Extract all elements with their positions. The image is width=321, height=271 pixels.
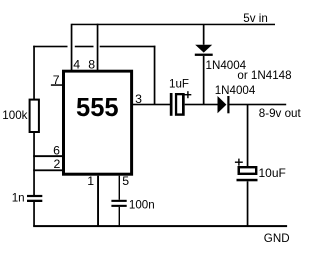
svg-text:or 1N4148: or 1N4148 xyxy=(237,69,291,82)
svg-text:1uF: 1uF xyxy=(169,77,189,90)
svg-text:GND: GND xyxy=(264,232,290,245)
svg-text:100n: 100n xyxy=(129,198,155,211)
svg-text:5: 5 xyxy=(122,174,129,188)
svg-text:7: 7 xyxy=(53,73,60,87)
svg-text:1n: 1n xyxy=(12,192,25,205)
svg-text:5v in: 5v in xyxy=(243,12,267,25)
svg-text:555: 555 xyxy=(76,94,119,122)
svg-text:1: 1 xyxy=(87,174,94,188)
svg-text:8-9v out: 8-9v out xyxy=(259,107,302,120)
svg-text:2: 2 xyxy=(54,157,61,171)
svg-text:10uF: 10uF xyxy=(259,166,286,180)
svg-text:8: 8 xyxy=(88,58,95,72)
svg-text:100k: 100k xyxy=(2,109,27,122)
svg-text:1N4004: 1N4004 xyxy=(215,84,256,97)
svg-text:6: 6 xyxy=(53,144,60,158)
svg-text:3: 3 xyxy=(135,92,142,106)
svg-text:4: 4 xyxy=(73,58,80,72)
